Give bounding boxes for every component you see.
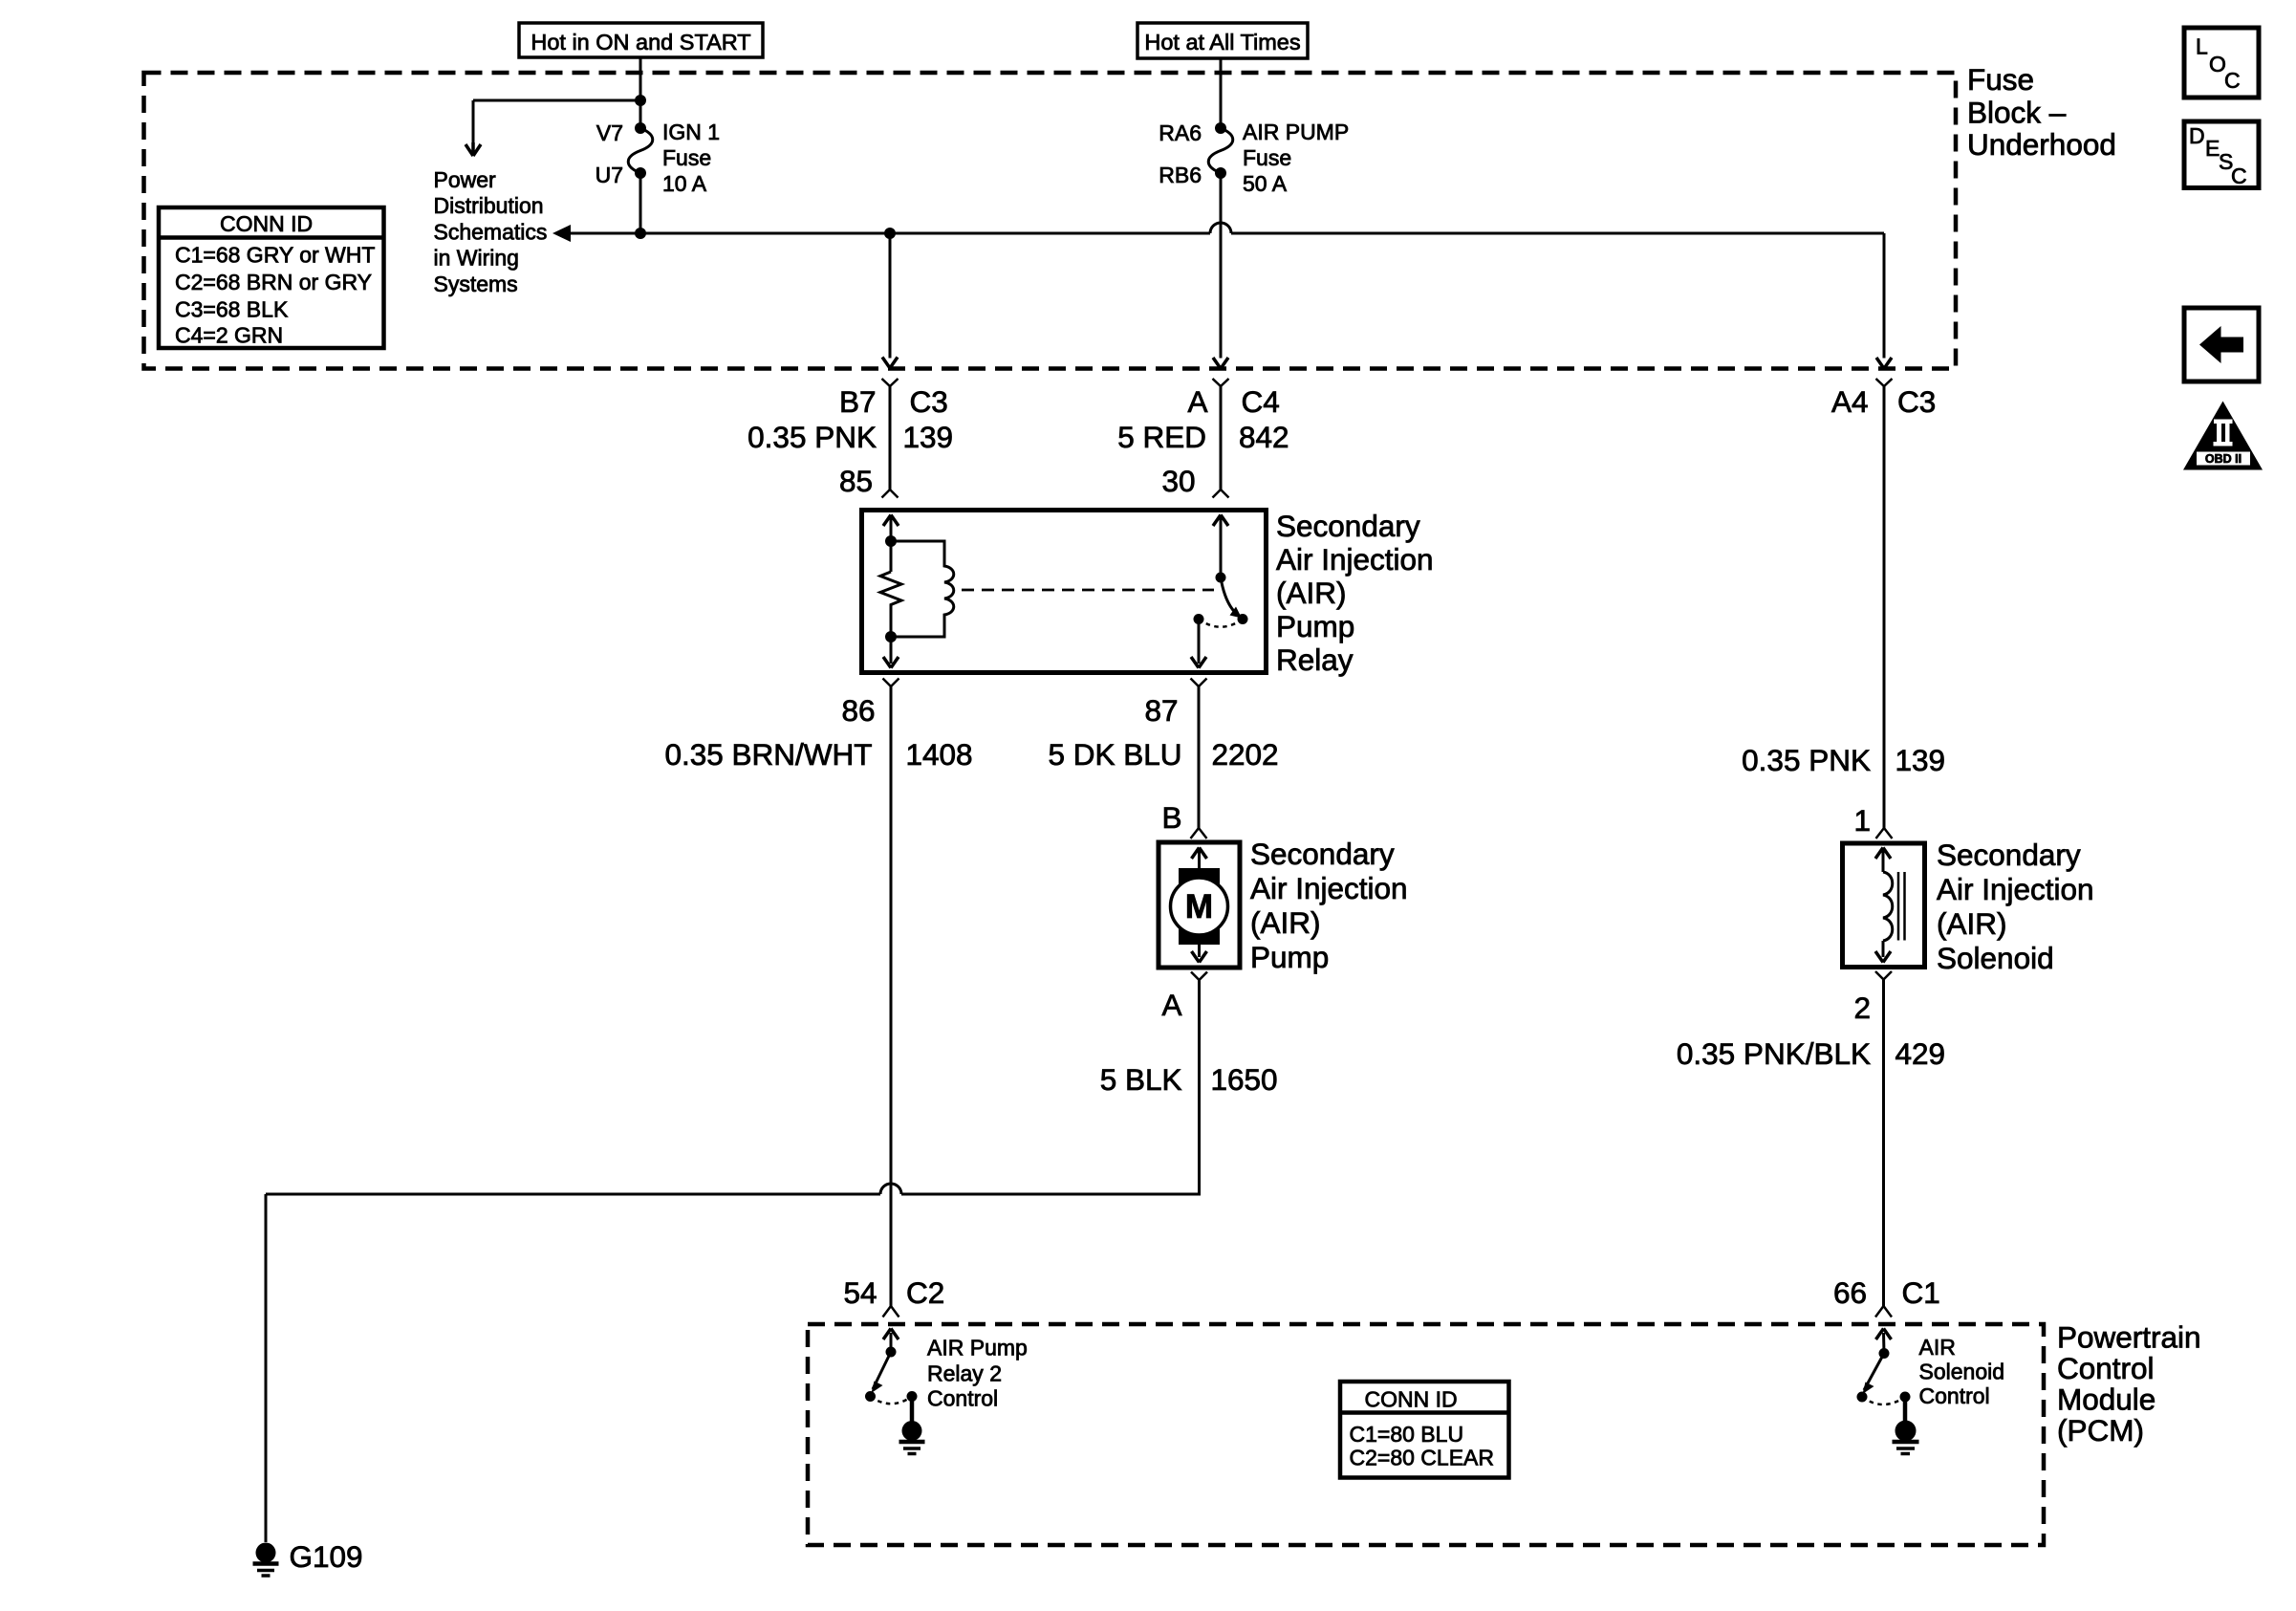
svg-text:(AIR): (AIR) — [1250, 905, 1321, 940]
svg-text:C2=80 CLEAR: C2=80 CLEAR — [1350, 1446, 1495, 1470]
svg-text:C2: C2 — [906, 1275, 944, 1310]
svg-text:AIR PUMP: AIR PUMP — [1243, 120, 1349, 144]
svg-text:C1=80 BLU: C1=80 BLU — [1350, 1422, 1464, 1447]
svg-text:Schematics: Schematics — [434, 219, 548, 244]
svg-text:Powertrain: Powertrain — [2057, 1320, 2201, 1355]
svg-text:Air Injection: Air Injection — [1937, 872, 2094, 906]
svg-text:Pump: Pump — [1250, 940, 1329, 974]
svg-text:Air Injection: Air Injection — [1250, 871, 1408, 905]
svg-text:50 A: 50 A — [1243, 171, 1288, 196]
svg-text:IGN 1: IGN 1 — [662, 120, 720, 144]
svg-text:C1=68 GRY or WHT: C1=68 GRY or WHT — [175, 243, 375, 268]
svg-text:0.35 BRN/WHT: 0.35 BRN/WHT — [664, 737, 872, 772]
svg-text:30: 30 — [1161, 464, 1195, 498]
svg-text:U7: U7 — [596, 163, 623, 187]
svg-text:10 A: 10 A — [662, 171, 707, 196]
svg-text:Underhood: Underhood — [1967, 127, 2116, 162]
svg-text:1408: 1408 — [906, 737, 973, 772]
svg-text:B7: B7 — [839, 384, 877, 419]
svg-text:139: 139 — [1895, 743, 1946, 777]
svg-text:AIR Pump: AIR Pump — [927, 1336, 1028, 1361]
svg-text:A4: A4 — [1831, 384, 1869, 419]
svg-text:1650: 1650 — [1211, 1062, 1278, 1097]
svg-text:Hot in ON and START: Hot in ON and START — [531, 30, 750, 54]
svg-text:Fuse: Fuse — [662, 145, 711, 170]
svg-text:Solenoid: Solenoid — [1919, 1360, 2005, 1384]
svg-text:66: 66 — [1833, 1275, 1867, 1310]
svg-text:Module: Module — [2057, 1382, 2155, 1417]
svg-text:Control: Control — [1919, 1383, 1990, 1408]
svg-text:139: 139 — [903, 420, 954, 454]
svg-text:0.35 PNK: 0.35 PNK — [747, 420, 877, 454]
svg-text:Fuse: Fuse — [1967, 62, 2034, 97]
svg-text:Block –: Block – — [1967, 96, 2067, 130]
svg-text:AIR: AIR — [1919, 1335, 1956, 1360]
svg-text:2202: 2202 — [1212, 737, 1279, 772]
svg-text:Control: Control — [2057, 1351, 2155, 1385]
svg-text:CONN ID: CONN ID — [1365, 1387, 1458, 1412]
svg-text:(AIR): (AIR) — [1276, 576, 1347, 610]
svg-text:0.35 PNK: 0.35 PNK — [1742, 743, 1871, 777]
svg-text:0.35 PNK/BLK: 0.35 PNK/BLK — [1677, 1036, 1871, 1071]
svg-text:(PCM): (PCM) — [2057, 1413, 2144, 1448]
svg-text:C3: C3 — [910, 384, 948, 419]
svg-text:C3=68 BLK: C3=68 BLK — [175, 297, 289, 322]
svg-text:V7: V7 — [596, 120, 623, 145]
svg-text:Power: Power — [434, 167, 497, 192]
svg-text:C1: C1 — [1902, 1275, 1940, 1310]
svg-text:5 BLK: 5 BLK — [1100, 1062, 1182, 1097]
svg-text:CONN ID: CONN ID — [220, 211, 313, 236]
svg-text:Pump: Pump — [1276, 609, 1354, 643]
svg-text:C4: C4 — [1242, 384, 1280, 419]
svg-text:B: B — [1161, 800, 1181, 835]
svg-text:Secondary: Secondary — [1937, 838, 2081, 872]
svg-text:C: C — [2224, 68, 2241, 93]
svg-text:5 DK BLU: 5 DK BLU — [1048, 737, 1181, 772]
svg-text:5 RED: 5 RED — [1117, 420, 1206, 454]
svg-text:A: A — [1187, 384, 1207, 419]
svg-text:Fuse: Fuse — [1243, 145, 1291, 170]
svg-text:Relay: Relay — [1276, 642, 1354, 677]
svg-text:Secondary: Secondary — [1250, 837, 1395, 871]
svg-text:Air Injection: Air Injection — [1276, 542, 1434, 577]
svg-text:54: 54 — [843, 1275, 877, 1310]
svg-text:Systems: Systems — [434, 272, 518, 296]
svg-text:in Wiring: in Wiring — [434, 246, 519, 271]
svg-text:C2=68 BRN or GRY: C2=68 BRN or GRY — [175, 270, 372, 294]
svg-text:429: 429 — [1895, 1036, 1946, 1071]
svg-text:C: C — [2231, 163, 2247, 188]
svg-text:Distribution: Distribution — [434, 193, 544, 218]
svg-text:Hot at All Times: Hot at All Times — [1144, 30, 1300, 54]
svg-text:2: 2 — [1853, 991, 1871, 1025]
svg-text:C3: C3 — [1897, 384, 1936, 419]
svg-text:M: M — [1185, 888, 1213, 925]
svg-text:A: A — [1161, 988, 1181, 1022]
svg-text:OBD II: OBD II — [2205, 452, 2242, 466]
svg-text:L: L — [2196, 34, 2208, 59]
svg-text:842: 842 — [1239, 420, 1289, 454]
svg-text:RB6: RB6 — [1159, 163, 1202, 187]
svg-text:85: 85 — [839, 464, 873, 498]
svg-text:(AIR): (AIR) — [1937, 906, 2007, 941]
svg-text:G109: G109 — [290, 1539, 363, 1574]
svg-text:86: 86 — [841, 693, 875, 728]
svg-text:Relay 2: Relay 2 — [927, 1361, 1002, 1386]
svg-text:1: 1 — [1853, 803, 1871, 838]
svg-text:RA6: RA6 — [1159, 120, 1202, 145]
svg-text:87: 87 — [1144, 693, 1178, 728]
svg-text:C4=2 GRN: C4=2 GRN — [175, 323, 283, 348]
svg-text:Control: Control — [927, 1386, 998, 1411]
svg-text:D: D — [2189, 123, 2205, 148]
svg-text:Secondary: Secondary — [1276, 509, 1420, 543]
svg-text:Solenoid: Solenoid — [1937, 941, 2054, 975]
